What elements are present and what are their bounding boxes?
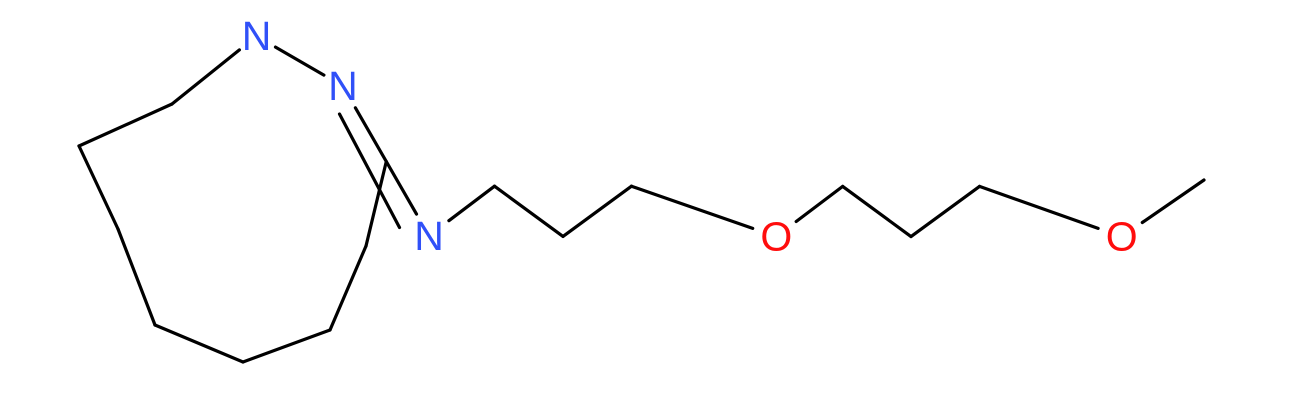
svg-text:N: N bbox=[242, 13, 272, 59]
svg-text:O: O bbox=[760, 214, 792, 260]
svg-text:O: O bbox=[1106, 214, 1138, 260]
svg-text:N: N bbox=[414, 213, 444, 259]
svg-text:N: N bbox=[328, 63, 358, 109]
